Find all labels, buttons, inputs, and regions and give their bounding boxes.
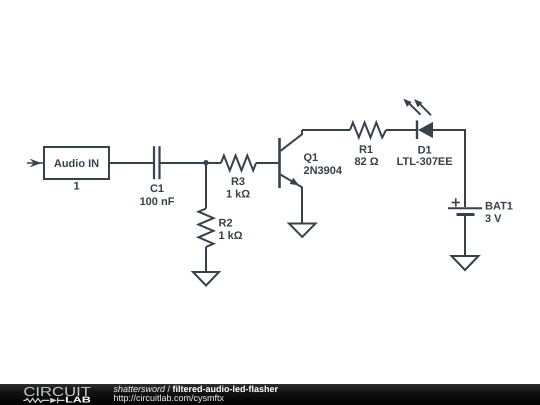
ground under R2 <box>193 272 219 286</box>
svg-text:LTL-307EE: LTL-307EE <box>397 156 453 168</box>
resistor R2 <box>199 209 243 247</box>
logo resistor-diode squiggle <box>23 398 64 404</box>
svg-text:100 nF: 100 nF <box>140 196 175 208</box>
svg-text:R1: R1 <box>359 144 373 156</box>
svg-text:3 V: 3 V <box>485 213 502 225</box>
capacitor C1 <box>140 146 175 208</box>
wire R2 to ground <box>205 247 207 272</box>
svg-text:R3: R3 <box>231 176 245 188</box>
wire D1 to battery <box>433 130 465 207</box>
svg-text:1 kΩ: 1 kΩ <box>219 230 243 242</box>
wire C1 to node <box>161 162 207 164</box>
svg-text:D1: D1 <box>418 144 432 156</box>
resistor R1 <box>350 123 386 169</box>
svg-text:R2: R2 <box>219 218 233 230</box>
svg-text:2N3904: 2N3904 <box>304 165 343 177</box>
svg-text:1 kΩ: 1 kΩ <box>226 189 250 201</box>
node junction <box>203 160 208 165</box>
input arrow <box>27 159 44 168</box>
transistor Q1 <box>280 130 343 224</box>
wire node down to R2 <box>205 163 207 209</box>
block Audio IN <box>44 147 109 179</box>
svg-text:LAB: LAB <box>65 394 91 404</box>
ground under Q1 emitter <box>289 224 316 238</box>
wire battery to ground <box>464 215 466 257</box>
svg-text:1: 1 <box>73 181 79 193</box>
svg-text:Q1: Q1 <box>304 152 319 164</box>
svg-text:C1: C1 <box>150 183 164 195</box>
wire R1 to D1 <box>386 129 416 131</box>
credits text <box>114 386 279 402</box>
LED D1 <box>397 99 453 168</box>
svg-text:Audio IN: Audio IN <box>54 158 99 170</box>
wire collector to R1 <box>302 129 350 131</box>
svg-text:82 Ω: 82 Ω <box>354 156 378 168</box>
battery BAT1 <box>448 198 513 225</box>
footer bar <box>0 384 540 405</box>
wire R3 to Q1 base <box>256 162 278 164</box>
resistor R3 <box>221 156 256 201</box>
wire node to R3 <box>206 162 221 164</box>
ground under battery <box>452 256 479 270</box>
svg-text:BAT1: BAT1 <box>485 201 513 213</box>
wire box to C1 <box>109 162 153 164</box>
